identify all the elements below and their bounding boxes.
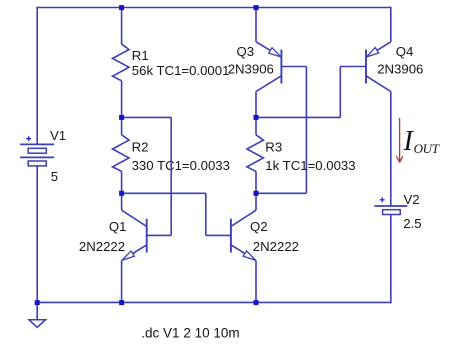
wire Q3 base to R3 bottom junction	[256, 192, 306, 194]
transistor Q2 emitter arrow	[243, 251, 255, 260]
transistor Q1 emitter arrow	[122, 251, 134, 260]
transistor Q3 collector diagonal	[256, 76, 281, 92]
svg-text:2N3906: 2N3906	[228, 61, 274, 76]
transistor Q2 collector diagonal	[231, 210, 256, 226]
transistor Q1 collector diagonal	[122, 210, 147, 226]
voltage source V2 plate	[374, 205, 407, 207]
wire right column top (top rail to Q4 emitter)	[390, 7, 392, 42]
node junction R2 bottom / Q1 collector / Q2 base	[119, 191, 124, 196]
svg-text:R3: R3	[265, 140, 282, 155]
node junction top rail / R1	[119, 5, 124, 10]
svg-text:R2: R2	[132, 140, 149, 155]
transistor Q1 base lead	[147, 234, 172, 236]
wire Q2 emitter to bottom rail	[255, 261, 257, 303]
wire R1 bottom lead	[121, 81, 123, 118]
wire right column bottom (V2 to bottom rail)	[390, 214, 392, 303]
svg-text:1k TC1=0.0033: 1k TC1=0.0033	[265, 158, 355, 173]
svg-text:2N2222: 2N2222	[79, 239, 125, 254]
transistor Q4 emitter diagonal	[366, 42, 391, 57]
svg-text:2N3906: 2N3906	[377, 62, 423, 77]
wire top rail	[36, 7, 390, 9]
node junction R1-R2 / Q1 base	[119, 115, 124, 120]
transistor Q1 bar	[146, 219, 148, 253]
transistor Q3 emitter arrow	[269, 48, 281, 57]
wire node B vertical (down to Q2 base)	[205, 193, 207, 235]
voltage source V2 cell	[383, 210, 401, 215]
wire node A horizontal (R1-R2 junction to Q1 base column)	[122, 116, 172, 118]
resistor R2	[113, 135, 130, 172]
transistor Q2 emitter diagonal	[231, 245, 256, 261]
node junction bottom rail / Q1 emitter	[119, 300, 124, 305]
transistor Q4 emitter arrow	[366, 48, 378, 57]
node junction R3 bottom / Q2 collector / Q3 base	[254, 191, 259, 196]
wire Q1 emitter to bottom rail	[121, 261, 123, 303]
svg-text:2N2222: 2N2222	[253, 239, 299, 254]
voltage source V1 plate 2	[20, 156, 54, 158]
transistor Q4 bar	[365, 50, 367, 84]
ground symbol	[29, 320, 46, 328]
voltage source V1 plate 1	[20, 143, 54, 145]
node junction top rail / Q3 emitter	[254, 5, 259, 10]
transistor Q2 collector stub	[255, 193, 257, 210]
voltage source V2 plus sign	[380, 197, 385, 202]
voltage source V1 cell 2	[28, 161, 46, 166]
ground stub	[36, 302, 38, 319]
voltage source V1 plus sign	[26, 136, 31, 141]
svg-text:Q4: Q4	[396, 44, 414, 59]
wire left rail lower (V1 bottom to ground rail)	[36, 166, 38, 303]
svg-text:Q3: Q3	[237, 44, 255, 59]
wire bottom rail	[36, 301, 391, 303]
wire R3 top lead	[255, 117, 257, 134]
svg-text:2.5: 2.5	[403, 216, 421, 231]
svg-text:56k TC1=0.0001: 56k TC1=0.0001	[132, 63, 230, 78]
transistor Q4 collector diagonal	[366, 76, 391, 92]
svg-text:V1: V1	[50, 128, 66, 143]
wire node A vertical (down to Q1 base)	[170, 117, 172, 235]
transistor Q3 emitter diagonal	[256, 42, 281, 57]
wire R2 top lead	[121, 117, 123, 134]
svg-text:Q1: Q1	[109, 219, 127, 234]
wire right column mid (Q4 collector to V2)	[390, 92, 392, 207]
transistor Q2 bar	[230, 219, 232, 253]
resistor R1	[113, 44, 130, 81]
wire R2 bottom lead	[121, 171, 123, 193]
svg-text:5: 5	[51, 169, 58, 184]
svg-text:Q2: Q2	[250, 219, 268, 234]
wire node B horizontal (R2 bottom to Q2 base column)	[122, 192, 206, 194]
transistor Q3 bar	[280, 50, 282, 84]
wire left rail upper (V1 top)	[36, 7, 38, 145]
wire Q3 base vertical	[305, 67, 307, 194]
transistor Q3 base lead	[281, 66, 306, 68]
resistor R3	[247, 135, 264, 172]
node junction Q3 collector / R3 top / Q4 base	[254, 115, 259, 120]
node junction bottom rail / ground	[35, 300, 40, 305]
wire R1 top lead	[121, 8, 123, 45]
wire Q4 base vertical	[339, 67, 341, 118]
svg-text:OUT: OUT	[414, 141, 440, 156]
wire Q3 collector stub	[255, 92, 257, 118]
wire Q3 emitter stub from top rail	[255, 8, 257, 42]
wire Q3 collector to Q4 base horizontal	[256, 116, 340, 118]
current arrow I_OUT	[396, 118, 402, 162]
svg-text:330 TC1=0.0033: 330 TC1=0.0033	[132, 158, 230, 173]
transistor Q4 base lead	[340, 66, 366, 68]
transistor Q1 collector stub	[121, 193, 123, 210]
transistor Q1 emitter diagonal	[122, 245, 147, 261]
node junction bottom rail / Q2 emitter	[254, 300, 259, 305]
svg-text:.dc V1 2 10 10m: .dc V1 2 10 10m	[141, 325, 239, 340]
svg-text:R1: R1	[132, 48, 149, 63]
transistor Q2 base lead	[206, 234, 231, 236]
wire R3 bottom lead	[255, 171, 257, 193]
voltage source V1 cell 1	[28, 148, 46, 153]
svg-text:V2: V2	[404, 192, 420, 207]
